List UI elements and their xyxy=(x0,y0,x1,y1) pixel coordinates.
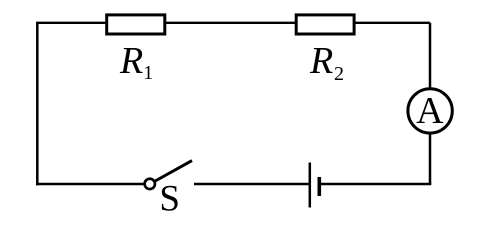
wire: right vertical xyxy=(429,23,432,184)
svg-text:R: R xyxy=(119,40,143,82)
svg-text:A: A xyxy=(416,90,444,132)
battery positive plate (long) xyxy=(309,163,312,208)
wire: bottom left segment xyxy=(36,183,144,186)
resistor R2 (box) xyxy=(296,15,354,34)
wire: bottom middle segment xyxy=(194,183,309,186)
svg-text:S: S xyxy=(159,179,180,220)
label R1 xyxy=(119,40,153,84)
ammeter A (circle) xyxy=(408,89,452,133)
battery negative plate (short) xyxy=(317,177,321,196)
wire: top horizontal xyxy=(37,22,430,24)
label R2 xyxy=(309,40,344,85)
wire: bottom right segment xyxy=(321,183,431,186)
switch S pivot circle xyxy=(145,179,155,189)
wire: left vertical xyxy=(36,22,39,186)
resistor R1 (box) xyxy=(107,15,165,34)
svg-text:R: R xyxy=(309,40,333,82)
svg-text:2: 2 xyxy=(334,63,344,85)
svg-text:1: 1 xyxy=(143,62,153,84)
switch S lever xyxy=(155,161,192,181)
